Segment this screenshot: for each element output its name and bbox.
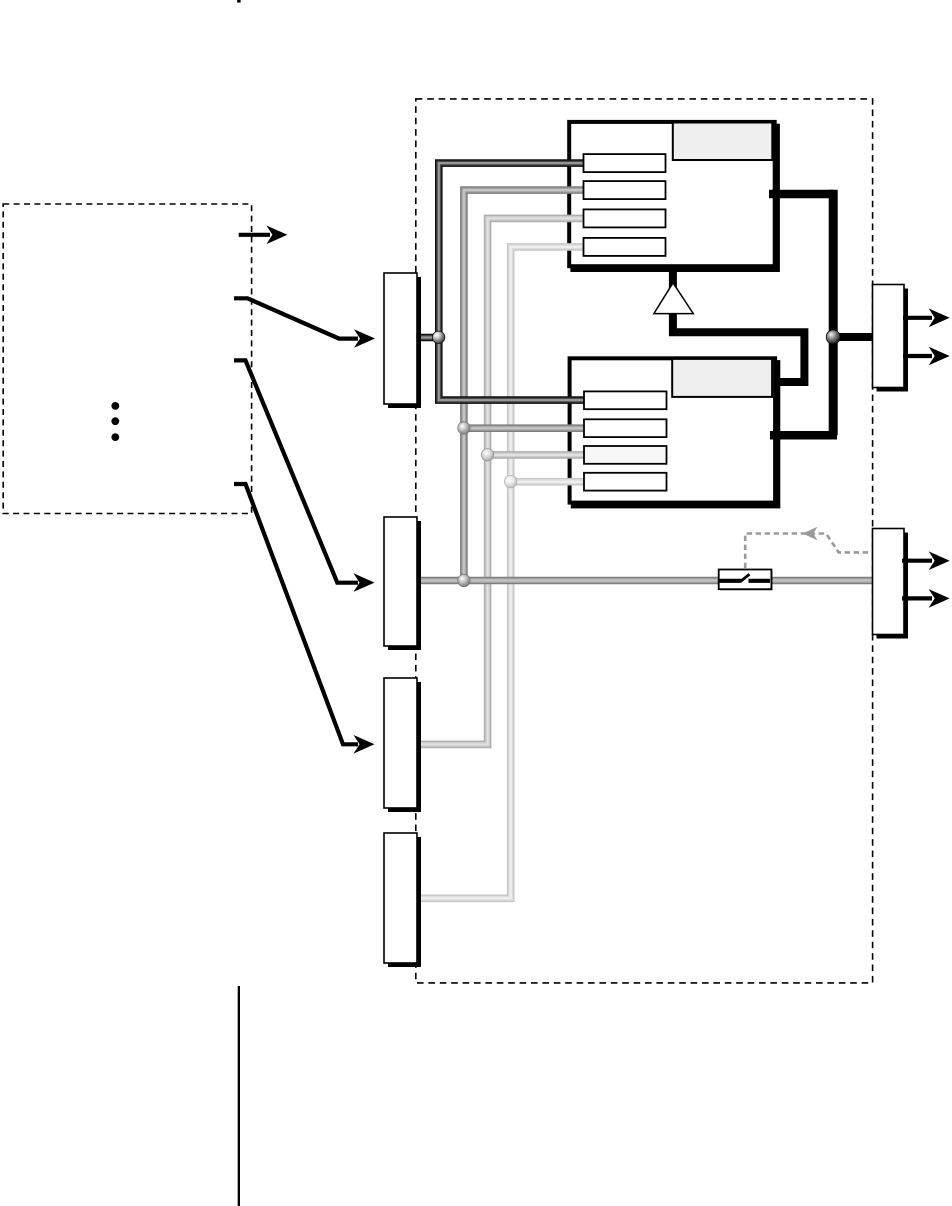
left connector 1 shadow (388, 277, 421, 408)
register block B2 (570, 358, 776, 502)
switch box on wire 2 (719, 570, 773, 591)
arrow 3 (to connector 2) (234, 360, 375, 592)
left connector 3 shadow (388, 682, 421, 812)
thick bus: junction branch to right connector R1 (833, 333, 873, 341)
wire 3 branch to B2 register 3 (488, 451, 590, 459)
arrow 4 (to connector 3) (234, 484, 375, 754)
junction ball wire4 branch (505, 475, 517, 487)
thick bus: main vertical (829, 190, 838, 435)
B1 register slot 1 (584, 154, 666, 172)
wire 4 (lightest gray pipe) (417, 247, 590, 898)
register block B1 shadow (570, 124, 780, 272)
right connector R2 shadow (877, 533, 909, 639)
bottom-left vertical line (238, 986, 240, 1206)
B2 register slot 2 (584, 419, 667, 437)
thick bus: B1 output to main vertical (769, 190, 833, 199)
left dashed box (instruction source) (3, 204, 251, 514)
wire 3 (light gray pipe) (417, 218, 590, 744)
register block B1 (569, 122, 775, 266)
R2 output arrow 1 (902, 551, 950, 570)
right connector R2 (873, 529, 905, 635)
R1 output arrow 2 (903, 347, 950, 366)
B1 register slot 2 (584, 181, 666, 199)
B1 register slot 3 (584, 209, 666, 227)
clock input triangle on B1 (654, 283, 693, 314)
wire 2 (mid gray pipe) with long run to switch (464, 190, 720, 580)
thick bus: B2 output to main vertical (770, 431, 837, 440)
vertical ellipsis dots (111, 402, 119, 441)
junction ball wire3 branch (481, 449, 493, 461)
arrow 2 (to connector 1) (234, 298, 375, 348)
wire 1 stub from connector 1 (417, 334, 439, 342)
B2 register slot 3 (highlighted) (584, 446, 667, 464)
junction ball on main bus (826, 330, 840, 344)
R1 output arrow 1 (903, 309, 950, 328)
right connector R1 shadow (877, 289, 909, 392)
main dashed box (processor unit) (416, 99, 873, 983)
junction ball wire2 branch (458, 422, 470, 434)
left connector 2 (384, 517, 417, 646)
R2 output arrow 2 (902, 589, 950, 608)
wire 2 branch to B2 register 2 (464, 424, 590, 432)
B2 register slot 4 (584, 473, 667, 491)
B1 register slot 4 (584, 238, 666, 256)
B2 register slot 1 (584, 391, 667, 409)
left connector 4 shadow (388, 837, 421, 967)
left connector 4 (384, 833, 417, 963)
B2 gray tag rect (672, 359, 772, 397)
junction ball wire2/connector2 (458, 574, 470, 586)
arrow 1 (horizontal, top) (239, 226, 288, 245)
dashed control wire from R2 to switch (745, 527, 872, 568)
top edge tick mark (237, 0, 240, 3)
B1 gray tag rect (673, 123, 773, 161)
right connector R1 (873, 285, 905, 388)
left connector 3 (384, 678, 417, 808)
wire 2 stub from connector 2 (417, 577, 464, 585)
left connector 2 shadow (388, 521, 421, 650)
wire 4 branch to B2 register 4 (511, 478, 590, 486)
junction ball wire1/connector1 (432, 331, 444, 343)
thick clock wire from B2 to B1 triangle (673, 266, 805, 382)
wire 1 (dark gray pipe) (439, 163, 590, 400)
left connector 1 (384, 273, 417, 404)
register block B2 shadow (571, 360, 781, 508)
wire 2 run from switch to right connector R2 (771, 577, 874, 585)
